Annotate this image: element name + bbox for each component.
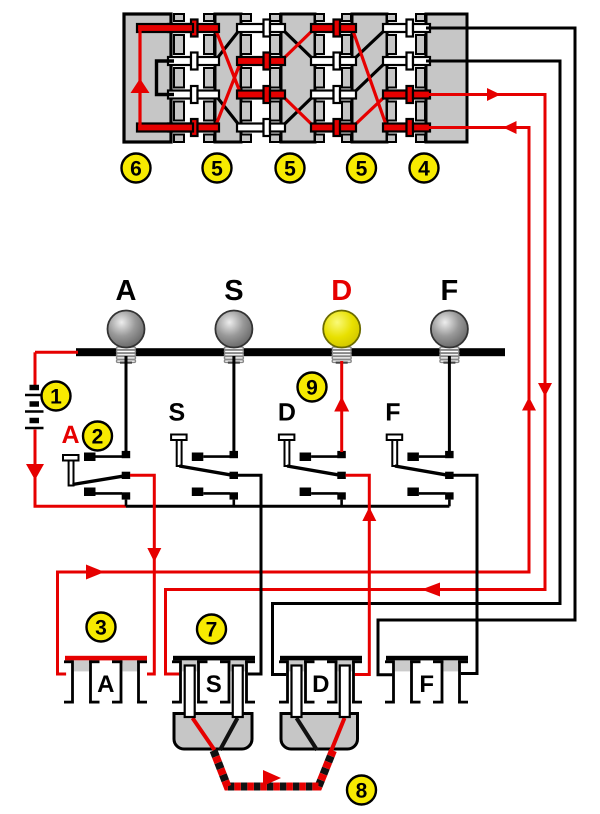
junction reflector-rotor1 contact row 1 <box>168 20 219 37</box>
battery cells <box>25 388 44 429</box>
red wire entry row3 to socket S left (return current) <box>166 95 546 675</box>
circled number 5 <box>347 154 376 183</box>
rotor 3 internal wires <box>352 28 387 128</box>
lamp A bulb <box>108 311 145 348</box>
plugboard socket F <box>385 656 468 704</box>
svg-text:2: 2 <box>92 426 104 449</box>
arrow down on key A wire <box>147 548 161 562</box>
svg-text:5: 5 <box>356 158 368 181</box>
lamp S bulb <box>215 311 252 348</box>
reflector red up arrow <box>131 79 150 94</box>
black wire in S connector <box>220 718 238 750</box>
circled number 5 <box>203 154 232 183</box>
black wire in D connector <box>297 718 318 750</box>
arrow right on patch cable <box>263 770 281 786</box>
svg-text:A: A <box>61 421 79 449</box>
arrow left into entry row4 <box>503 121 517 134</box>
circled number 5 <box>276 154 305 183</box>
svg-text:A: A <box>116 275 137 307</box>
wire entry row1 to socket F left <box>378 28 575 675</box>
svg-text:F: F <box>385 399 400 427</box>
key switch A <box>61 421 130 506</box>
svg-text:3: 3 <box>95 617 107 640</box>
circled number 6 <box>122 154 151 183</box>
junction rotor1-rotor2 contact row 2 <box>237 53 285 70</box>
circled number 2 <box>83 422 112 451</box>
junction rotor2-rotor3 contact row 2 <box>311 53 356 70</box>
red wire plugboard socket D to key D <box>346 475 370 674</box>
key switch D <box>278 399 346 507</box>
junction rotor1-rotor2 contact row 1 <box>237 20 285 37</box>
lamp D screw base <box>332 347 351 363</box>
wire lamp F to key F contact <box>448 356 451 452</box>
plug connector body under socket S <box>174 714 252 750</box>
junction rotor3-entry contact row 3 <box>383 86 430 103</box>
svg-text:9: 9 <box>306 377 318 400</box>
rotor 1 internal wires <box>215 28 241 128</box>
lamp F screw base <box>440 347 459 363</box>
entry wheel body <box>426 14 467 142</box>
svg-text:8: 8 <box>356 780 368 803</box>
red wire in S connector (left pin to cable) <box>193 718 215 750</box>
svg-text:D: D <box>312 671 329 698</box>
reflector body (Umkehrwalze) <box>124 14 171 142</box>
svg-text:1: 1 <box>50 386 62 409</box>
key switch S <box>168 399 238 507</box>
circled number 4 <box>410 154 439 183</box>
plug pin <box>292 666 302 718</box>
wire key S to plugboard socket S <box>238 475 261 674</box>
arrow down on battery wire <box>26 464 44 480</box>
wire key F to plugboard socket F <box>453 475 477 673</box>
lamp S screw base <box>224 347 243 363</box>
lamp bus bar <box>76 348 505 356</box>
contact rails between units <box>174 14 425 142</box>
red wire battery to lamp bar <box>35 351 78 354</box>
svg-text:D: D <box>331 275 352 307</box>
plug pin <box>233 666 243 718</box>
junction rotor2-rotor3 contact row 3 <box>311 86 356 103</box>
junction rotor3-entry contact row 1 <box>383 20 430 37</box>
plugboard socket S <box>172 656 255 704</box>
junction rotor2-rotor3 contact row 4 <box>311 119 356 136</box>
wire entry row2 to socket D left <box>273 61 561 675</box>
red wire in D connector (right pin to cable) <box>332 718 345 750</box>
junction rotor3-entry contact row 2 <box>383 53 430 70</box>
arrow down on x=545 return wire <box>538 383 552 397</box>
junction rotor1-rotor2 contact row 4 <box>237 119 285 136</box>
red wire lamp bar to battery <box>34 352 37 386</box>
svg-text:S: S <box>168 399 185 427</box>
plugboard socket D <box>279 656 362 704</box>
svg-text:S: S <box>224 275 243 307</box>
arrow left on y=589.5 wire to socket S <box>422 583 441 597</box>
junction reflector-rotor1 contact row 3 <box>168 86 219 103</box>
lamp D bulb <box>323 311 360 348</box>
svg-text:S: S <box>206 671 222 698</box>
reflector black loop <box>157 61 175 95</box>
red wire socket A left to entry row4 (input current) <box>58 128 530 675</box>
arrow up to lamp D <box>334 397 349 412</box>
svg-text:4: 4 <box>418 158 430 181</box>
key switch F <box>385 399 453 507</box>
arrow right on y=572 wire from socket A <box>86 565 105 580</box>
wire lamp S to key S contact <box>232 356 235 452</box>
plug pin <box>340 666 350 718</box>
svg-text:5: 5 <box>211 158 223 181</box>
red wire battery to key bus <box>35 430 126 507</box>
plugboard socket A <box>64 656 147 704</box>
plug pin <box>185 666 195 718</box>
circled number 7 <box>197 615 226 644</box>
svg-text:5: 5 <box>284 158 296 181</box>
lamp F bulb <box>431 311 468 348</box>
black key bus <box>126 505 449 508</box>
svg-text:A: A <box>97 671 114 698</box>
svg-text:F: F <box>441 275 459 307</box>
svg-text:7: 7 <box>206 619 218 642</box>
circled number 3 <box>87 613 116 642</box>
red wire key A to plugboard socket A <box>130 475 154 674</box>
rotor 2 internal wires <box>281 28 315 128</box>
rotor 3 body <box>352 14 387 142</box>
arrow up on x=529 input wire <box>522 397 536 411</box>
wire lamp A to key A contact <box>125 356 128 452</box>
red wire key D contact to lamp D <box>340 361 343 452</box>
reflector red return path <box>137 24 193 132</box>
svg-text:D: D <box>278 399 296 427</box>
lamp A screw base <box>117 347 136 363</box>
junction reflector-rotor1 contact row 4 <box>168 119 219 136</box>
arrow up on socket D wire <box>362 507 376 521</box>
circled number 1 <box>42 382 71 411</box>
plug connector body under socket D <box>281 714 358 750</box>
arrow right on entry row3 output <box>487 88 501 101</box>
circled number 8 <box>347 776 376 805</box>
svg-text:F: F <box>419 671 434 698</box>
circled number 9 <box>298 373 327 402</box>
rotor 2 body <box>281 14 315 142</box>
junction rotor3-entry contact row 4 <box>383 119 430 136</box>
svg-text:6: 6 <box>130 158 142 181</box>
patch cable S to D (8) <box>214 751 334 787</box>
junction rotor2-rotor3 contact row 1 <box>311 20 356 37</box>
rotor 1 body <box>215 14 241 142</box>
junction rotor1-rotor2 contact row 3 <box>237 86 285 103</box>
junction reflector-rotor1 contact row 2 <box>168 53 219 70</box>
